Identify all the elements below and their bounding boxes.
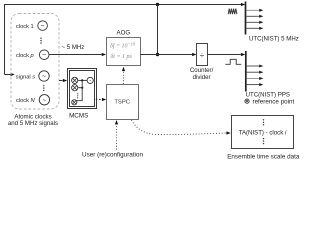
svg-text:TA(NIST) - clock i: TA(NIST) - clock i	[239, 129, 287, 136]
svg-text:TSPC: TSPC	[114, 99, 130, 105]
svg-text:clock 1: clock 1	[16, 24, 34, 30]
svg-text:Ensemble time scale data: Ensemble time scale data	[227, 153, 300, 160]
MCMS block outer	[68, 69, 97, 109]
svg-text:reference point: reference point	[253, 99, 295, 106]
wire arrow into 5MHz distribution	[241, 3, 245, 6]
counter/divider box	[197, 44, 208, 66]
svg-text:~: ~	[42, 52, 46, 59]
wire mixer2 branch	[78, 87, 82, 89]
PPS distribution bar	[245, 51, 247, 92]
wire panel to MCMS	[59, 80, 63, 82]
AOG box	[107, 38, 141, 66]
svg-text:UTC(NIST) 5 MHz: UTC(NIST) 5 MHz	[249, 36, 299, 43]
svg-text:and 5 MHz signals: and 5 MHz signals	[8, 120, 58, 127]
node junction top	[156, 3, 159, 6]
mixer 3	[72, 100, 77, 105]
dots between clock1 and clock p	[40, 38, 41, 44]
dots above	[263, 119, 264, 125]
svg-text:clock p: clock p	[16, 53, 34, 59]
wire mixer1 to oscillator	[78, 79, 87, 81]
svg-text:AOG: AOG	[117, 29, 131, 36]
sine squiggle	[228, 9, 237, 15]
svg-text:signal s: signal s	[16, 74, 35, 80]
dots between signal s and clock N	[43, 85, 44, 91]
svg-text:MCMS: MCMS	[69, 112, 88, 119]
reference oscillator circle in MCMS	[87, 77, 93, 83]
mixer 1	[72, 77, 78, 83]
dotted TSPC to AOG	[123, 69, 125, 85]
svg-text:~: ~	[89, 78, 92, 83]
wire AOG output to top line	[157, 5, 159, 55]
wire counter output to PPS distribution	[208, 54, 241, 56]
MCMS block inner	[70, 71, 95, 107]
wire feedback arrow into signal s	[5, 74, 11, 76]
5 MHz distribution bar	[245, 2, 247, 35]
svg-text:~: ~	[41, 23, 45, 30]
node MCMS junction 2	[81, 87, 83, 89]
svg-text:÷: ÷	[200, 51, 205, 60]
node MCMS junction 1	[81, 79, 83, 81]
svg-text:UTC(NIST) PPS: UTC(NIST) PPS	[246, 91, 290, 98]
wire distribution down to mixer3	[77, 80, 83, 100]
svg-text:clock N: clock N	[16, 98, 36, 104]
5 MHz fan arrows	[246, 10, 259, 28]
pulse symbol	[225, 59, 241, 64]
dotted user reconfiguration to TSPC	[116, 122, 118, 150]
svg-text:~: ~	[42, 74, 46, 81]
dotted curve TSPC to TA	[132, 120, 227, 135]
node junction AOG output	[156, 53, 159, 56]
svg-text:~: ~	[42, 97, 46, 104]
dots inside MCMS	[77, 93, 78, 98]
svg-text:divider: divider	[193, 74, 211, 81]
svg-text:~ 5 MHz: ~ 5 MHz	[62, 44, 85, 51]
wire MCMS to TSPC dashed	[96, 99, 103, 101]
wire clock p to AOG	[49, 54, 102, 56]
TSPC box	[107, 85, 139, 120]
svg-text:δt = 1 ps: δt = 1 ps	[111, 54, 133, 60]
PPS fan arrows	[247, 66, 260, 85]
wire AOG output	[141, 54, 193, 56]
dots below	[263, 138, 264, 144]
TA(NIST) box	[232, 116, 294, 149]
mixer 2	[72, 85, 78, 91]
svg-text:User (re)configuration: User (re)configuration	[82, 152, 143, 159]
wire top feedback line	[5, 5, 245, 75]
atomic clocks panel	[11, 14, 59, 110]
reference point symbol	[245, 99, 249, 103]
